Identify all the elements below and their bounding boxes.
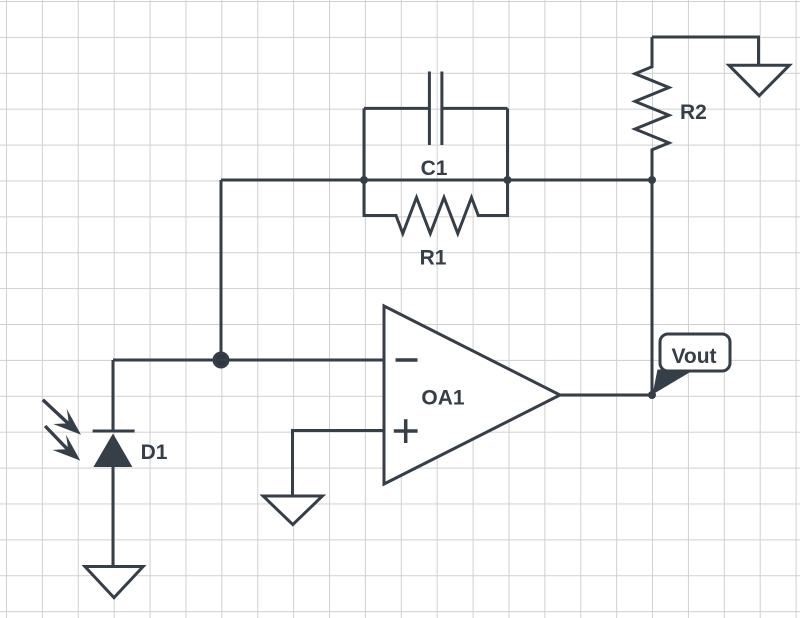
op-amp minus sign [396, 358, 418, 362]
svg-text:R1: R1 [420, 247, 447, 270]
svg-text:D1: D1 [141, 441, 168, 464]
photodiode light arrow 2 [45, 426, 80, 461]
wire non-inverting input [293, 431, 385, 497]
junction dot at output [648, 391, 656, 399]
wire C1 right vertical [506, 108, 509, 180]
wire main horizontal feedback rail [221, 179, 652, 182]
wire photodiode anode stem [112, 360, 115, 431]
svg-text:R2: R2 [680, 101, 707, 124]
junction dot at rail right [648, 176, 656, 184]
junction dot at rail middle [504, 176, 512, 184]
capacitor C1 [364, 72, 508, 146]
svg-text:OA1: OA1 [421, 387, 465, 410]
node inverting input (large dot) [214, 353, 228, 367]
wire op-amp output [560, 394, 652, 397]
ground GND1 top-right [729, 65, 790, 96]
resistor R1 [364, 180, 508, 234]
photodiode D1 triangle [93, 434, 132, 468]
wire left vertical from inverting node up to rail [220, 180, 223, 360]
resistor R2 [635, 37, 669, 180]
wire inverting input horizontal [113, 359, 384, 362]
op-amp plus sign [394, 419, 418, 443]
op-amp OA1 [384, 306, 560, 484]
ground GND3 below photodiode [85, 567, 143, 598]
wire right vertical from rail down to output [651, 180, 654, 395]
junction dot at rail left [360, 176, 368, 184]
svg-text:Vout: Vout [671, 345, 716, 368]
ground GND2 at non-inverting input [263, 496, 322, 525]
photodiode D1 cathode bar [93, 430, 135, 433]
wire top-right from R2 top to ground [652, 37, 759, 65]
wire C1 left vertical [363, 108, 366, 180]
svg-text:C1: C1 [421, 157, 448, 180]
Vout callout box [653, 334, 731, 395]
wire photodiode to ground [112, 467, 115, 566]
photodiode light arrow 1 [43, 400, 81, 435]
